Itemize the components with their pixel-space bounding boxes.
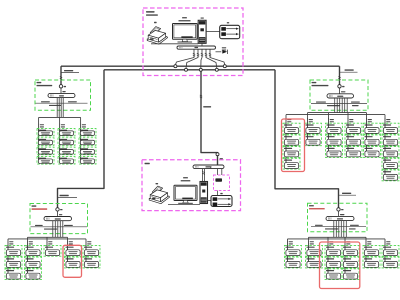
wire column R2C1	[287, 240, 289, 262]
wire tower to UPS	[206, 31, 220, 33]
outlet L1C2-1	[58, 128, 75, 136]
outlet L2C4-2	[65, 257, 82, 268]
outlet L2C2-1	[25, 245, 42, 256]
outlet L1C1-2	[37, 138, 54, 146]
node head R1C6	[386, 119, 390, 120]
label console room	[145, 163, 150, 164]
outlet L2C2-2	[25, 257, 42, 268]
printer PR (console)	[149, 186, 169, 204]
wire printer to tower	[151, 43, 198, 45]
outlet L2C2-3	[25, 269, 42, 280]
wire column L2C1	[7, 240, 9, 274]
wire column L2C2	[27, 240, 29, 274]
hub bar R1	[327, 94, 354, 98]
wire riser to hub R2	[275, 70, 339, 208]
node head R2C3	[329, 241, 333, 242]
outlet R1C6-4	[382, 158, 399, 169]
label PR console	[156, 183, 159, 184]
outlet L1C2-2	[58, 138, 75, 146]
junction coupler	[215, 68, 218, 71]
label feed MR cable R1	[345, 69, 354, 70]
hub room L2 (green dashed)	[30, 204, 88, 234]
wire main trunk B (y=70)	[104, 69, 275, 71]
outlet R1C3-3	[326, 147, 343, 158]
label fax	[215, 178, 222, 181]
hub room R2 (green dashed)	[308, 203, 368, 232]
outlet R1C6-5	[382, 170, 399, 181]
patch panel bar (top)	[177, 46, 216, 49]
wire column L1C3	[80, 123, 82, 160]
alarm highlight box R2 (red)	[320, 242, 360, 289]
outlet L2C5-2	[83, 257, 100, 268]
outlet R1C2-1	[305, 123, 322, 134]
outlet R2C4-3	[342, 269, 359, 280]
outlet R1C4-3	[345, 147, 362, 158]
label PR	[154, 22, 157, 23]
outlet R1C1-1	[283, 123, 300, 134]
wire bar to fax box 2	[221, 169, 223, 175]
outlet R2C5-1	[363, 245, 380, 256]
outlet R2C2-1	[306, 245, 323, 256]
wire main trunk A (y=66)	[61, 65, 340, 67]
outlet R2C4-2	[342, 257, 359, 268]
junction coupler	[199, 68, 202, 71]
wire coupler to bar R1	[339, 88, 341, 94]
hub bar R2	[326, 216, 354, 220]
outlet R1C1-3	[283, 147, 300, 158]
outlet L2C3-1	[44, 245, 61, 256]
outlet L1C3-2	[79, 138, 96, 146]
node head R2C6	[386, 241, 390, 242]
wire bundle below hub R1	[334, 98, 336, 113]
label wire SB	[203, 106, 211, 107]
node head L2C1	[9, 241, 13, 242]
label surge arrester	[222, 47, 226, 48]
node head L2C3	[48, 241, 52, 242]
outlet L2C1-3	[5, 269, 22, 280]
node head L1C3	[82, 124, 86, 125]
wire column L2C4	[67, 240, 69, 262]
outlet L2C1-2	[5, 257, 22, 268]
wire column L1C2	[59, 123, 61, 160]
outlet R1C5-2	[364, 135, 381, 146]
wire column L2C5	[85, 240, 87, 262]
outlet L1C3-1	[79, 128, 96, 136]
patch label line L1	[36, 102, 88, 104]
leader line feed R1	[340, 71, 358, 73]
wire bundle below hub L1	[56, 98, 58, 118]
junction coupler	[185, 68, 188, 71]
fan-out wires L1	[39, 116, 81, 118]
junction coupler	[174, 65, 177, 68]
wire riser to console box	[201, 70, 218, 153]
wire column R2C2	[308, 240, 310, 262]
fax dashed box	[214, 175, 230, 191]
outlet L2C4-1	[65, 245, 82, 256]
outlet L1C3-3	[79, 147, 96, 155]
console patch bar	[193, 165, 224, 169]
label workstation	[182, 17, 187, 18]
node head R2C1	[289, 241, 293, 242]
outlet R2C5-2	[363, 257, 380, 268]
recorder unit (console)	[211, 196, 232, 207]
coupler hub R1	[338, 85, 341, 88]
junction coupler	[223, 65, 226, 68]
node head R1C2	[309, 119, 313, 120]
outlet R2C1-2	[285, 257, 302, 268]
label hub L1	[37, 82, 42, 83]
wire column R1C1	[285, 118, 287, 164]
outlet L2C5-1	[83, 245, 100, 256]
leader line feed L1	[61, 72, 79, 74]
label feed MR cable L1	[64, 70, 73, 71]
node head R1C4	[349, 119, 353, 120]
coupler hub L1	[59, 85, 62, 88]
wire bar to fax box	[217, 169, 219, 175]
outlet L1C3-4	[79, 156, 96, 164]
outlet R2C3-3	[325, 269, 342, 280]
outlet L1C1-3	[37, 147, 54, 155]
wire coupler to bar L1	[60, 88, 62, 93]
outlet R2C6-2	[382, 257, 399, 268]
outlet R1C3-2	[326, 135, 343, 146]
patch label line R1	[311, 102, 367, 104]
outlet R1C5-1	[364, 123, 381, 134]
outlet R2C3-1	[325, 245, 342, 256]
fan-out wires R2	[288, 238, 386, 240]
hub bar L1	[48, 93, 75, 97]
node head L1C1	[40, 124, 44, 125]
wire coupler to bar R2	[338, 211, 340, 216]
printer PR (top)	[147, 27, 167, 45]
node head R2C5	[367, 241, 371, 242]
tower PC (top)	[198, 20, 206, 43]
outlet R1C6-2	[382, 135, 399, 146]
outlet R1C4-2	[345, 135, 362, 146]
coupler hub L2	[56, 208, 59, 211]
junction coupler console	[216, 153, 219, 156]
outlet L1C2-4	[58, 156, 75, 164]
wire column R1C5	[366, 118, 368, 152]
wire bar to tower (console)	[202, 169, 204, 182]
leader line feed L2	[58, 197, 78, 199]
wire printer to tower (console)	[168, 203, 200, 205]
outlet L1C1-1	[37, 128, 54, 136]
wire tower to recorder	[208, 200, 212, 202]
UPS unit (top)	[220, 25, 240, 38]
outlet R2C3-2	[325, 257, 342, 268]
wire bar to tower 2 (console)	[204, 169, 206, 182]
label console coupler tail	[220, 158, 223, 159]
outlet R1C1-4	[283, 158, 300, 169]
outlet R1C5-3	[364, 147, 381, 158]
wire column R2C5	[365, 240, 367, 262]
label hub R1	[312, 82, 317, 83]
wire column L1C1	[38, 123, 40, 160]
leader line feed R2	[339, 194, 357, 196]
monitor workstation (console)	[174, 185, 197, 203]
node head R2C4	[346, 241, 350, 242]
wire column R1C2	[307, 118, 309, 140]
wire patch drops to trunks	[175, 49, 194, 64]
wire column R1C3	[328, 118, 330, 152]
fan-out wires L2	[8, 238, 86, 240]
node head L2C5	[87, 241, 91, 242]
wire column R2C4	[344, 240, 346, 274]
surge arrester stub	[216, 51, 222, 53]
console room enclosure (magenta dashed)	[142, 160, 241, 211]
hub room R1 (green dashed)	[310, 80, 368, 110]
outlet R2C6-1	[382, 245, 399, 256]
outlet R1C6-3	[382, 147, 399, 158]
outlet R1C1-2	[283, 135, 300, 146]
wire column R2C6	[384, 240, 386, 262]
node head L2C4	[69, 241, 73, 242]
outlet R2C1-1	[285, 245, 302, 256]
wire column R1C4	[347, 118, 349, 152]
label tower	[201, 17, 204, 18]
label feed PR cable L2	[60, 195, 69, 196]
wire right riser to hub R1	[339, 66, 341, 85]
node head R2C2	[310, 241, 314, 242]
wire bundle below hub L2	[52, 221, 54, 238]
wire riser to hub L2	[58, 70, 105, 208]
coupler hub R2	[337, 208, 340, 211]
alarm highlight box L2 (red)	[63, 245, 82, 277]
outlet R2C2-2	[306, 257, 323, 268]
wire bundle below hub R2	[333, 221, 335, 238]
wire column L2C3	[46, 240, 48, 251]
wire tower to patch bar	[201, 43, 203, 46]
outlet L1C2-3	[58, 147, 75, 155]
patch label line R2	[311, 226, 366, 228]
hub room L1 (green dashed)	[35, 80, 91, 110]
outlet L2C1-1	[5, 245, 22, 256]
wire column R1C6	[384, 118, 386, 176]
label feed MR cable R2	[342, 193, 351, 194]
label recorder	[220, 193, 222, 194]
patch label line L2	[31, 226, 88, 228]
control room enclosure (magenta dashed)	[143, 8, 243, 76]
fan-out wires R1	[286, 114, 385, 116]
alarm highlight box R1 (red)	[282, 119, 305, 172]
outlet R1C4-1	[345, 123, 362, 134]
wire left riser to hub L1	[60, 66, 62, 85]
wire column R2C3	[327, 240, 329, 274]
node head L2C2	[29, 241, 33, 242]
label UPS A1	[227, 22, 229, 23]
wire coupler to bar L2	[57, 211, 59, 216]
label hub R2	[309, 205, 314, 206]
node head L1C2	[61, 124, 65, 125]
outlet L1C1-4	[37, 156, 54, 164]
label hub L2	[32, 205, 37, 206]
tower PC (console)	[200, 182, 208, 204]
node head R1C3	[330, 119, 334, 120]
outlet R1C2-2	[305, 135, 322, 146]
label control room	[146, 11, 155, 13]
node head R1C1	[287, 119, 291, 120]
outlet R2C4-1	[342, 245, 359, 256]
label console workstation	[183, 177, 188, 178]
outlet R1C3-1	[326, 123, 343, 134]
monitor workstation (top)	[173, 24, 198, 43]
outlet R1C6-1	[382, 123, 399, 134]
hub bar L2	[44, 217, 72, 221]
node head R1C5	[368, 119, 372, 120]
wire fax to recorder	[217, 191, 219, 196]
